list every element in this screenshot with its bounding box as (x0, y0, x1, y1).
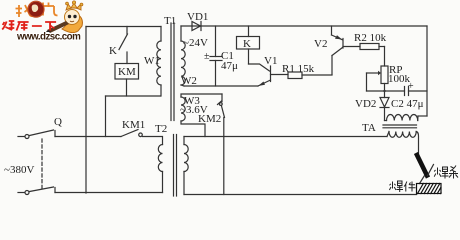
hanzi 焊件 (workpiece label) (389, 181, 415, 192)
capacitor C1 (210, 57, 222, 87)
wire KM2 drop to workpiece rail (223, 118, 225, 195)
hanzi 焊条 (electrode label) (434, 166, 458, 179)
wire workpiece rail (184, 194, 417, 196)
wire sense bottom line (367, 90, 405, 92)
transistor V1 (249, 49, 289, 86)
diode VD2 (380, 91, 389, 121)
wire C1 top stub (215, 26, 217, 57)
contactor coil KM (115, 64, 139, 80)
electrode 焊条 (thick rod) (417, 155, 434, 184)
svg-text:V2: V2 (314, 38, 327, 50)
wire welding loop (T2 secondary to TA) (184, 136, 387, 138)
resistor R1 (288, 72, 332, 79)
svg-text:~24V: ~24V (183, 37, 208, 49)
wire +24V top rail (181, 25, 427, 27)
svg-text:VD2: VD2 (355, 98, 376, 110)
switch K (119, 27, 128, 64)
potentiometer RP (367, 66, 389, 91)
switch Q pole 1 (18, 130, 121, 139)
switch Q link (dashed) (41, 139, 43, 189)
capacitor C2 (405, 87, 428, 96)
watermark logo circle (28, 1, 44, 17)
wire phase B rail (86, 192, 163, 194)
svg-text:TA: TA (362, 122, 376, 134)
wire top-left rail (K/W1 top) (86, 26, 161, 28)
svg-text:R1 15k: R1 15k (282, 63, 315, 75)
svg-text:K: K (243, 38, 251, 50)
wire right rail (418, 26, 427, 116)
svg-text:Q: Q (54, 116, 62, 128)
svg-text:www.dzsc.com: www.dzsc.com (16, 32, 81, 43)
svg-text:47μ: 47μ (221, 60, 238, 72)
current transformer TA core (383, 125, 417, 128)
transformer T2 secondary winding (184, 137, 188, 195)
current transformer TA secondary winding (385, 115, 419, 121)
svg-text:±: ± (204, 51, 210, 62)
transformer T2 primary winding (143, 137, 163, 193)
svg-text:K: K (109, 45, 117, 57)
watermark 找芯片 (orange) (16, 3, 58, 18)
transformer T1 winding W1 (157, 27, 161, 97)
svg-text:~380V: ~380V (4, 164, 34, 176)
relay coil K box (237, 26, 260, 49)
wire control bottom (node to W1 bottom) (106, 95, 161, 97)
svg-text:VD1: VD1 (187, 11, 208, 23)
transformer T1 core (171, 23, 174, 121)
wire left rail to bottom phase B (85, 27, 87, 194)
transformer T1 winding W3 (181, 94, 222, 137)
contact KM2 (218, 94, 225, 118)
svg-text:KM: KM (118, 66, 136, 78)
wire V2 collector riser (331, 56, 333, 75)
resistor R2 (360, 44, 385, 50)
wire control return drop (105, 96, 107, 137)
svg-text:C2 47μ: C2 47μ (391, 98, 424, 110)
workpiece 焊件 (hatched block) (417, 184, 442, 194)
watermark 维库一下 (red) (2, 21, 56, 31)
contact KM1 (121, 130, 142, 137)
transformer T2 core (174, 135, 177, 197)
diode VD1 (192, 22, 201, 31)
svg-text:T2: T2 (155, 123, 167, 135)
svg-text:T1: T1 (164, 15, 176, 27)
svg-text:R2 10k: R2 10k (354, 32, 387, 44)
wire RP top stub (384, 47, 386, 67)
switch Q pole 2 (18, 187, 86, 195)
wire control emitter line (W2 bottom to V1) (184, 85, 258, 87)
svg-text:KM1: KM1 (122, 119, 145, 131)
wire KM bottom stub (126, 79, 128, 96)
current transformer TA primary winding (387, 132, 419, 155)
svg-text:+: + (408, 81, 414, 92)
svg-text:W2: W2 (181, 75, 197, 87)
watermark www.dzsc.com (16, 32, 81, 43)
watermark mascot (44, 1, 83, 33)
svg-text:W1: W1 (144, 55, 160, 67)
transformer T1 winding W2 (181, 26, 185, 86)
svg-text:V1: V1 (264, 55, 277, 67)
svg-text:KM2: KM2 (198, 113, 221, 125)
transistor V2 (332, 26, 361, 56)
